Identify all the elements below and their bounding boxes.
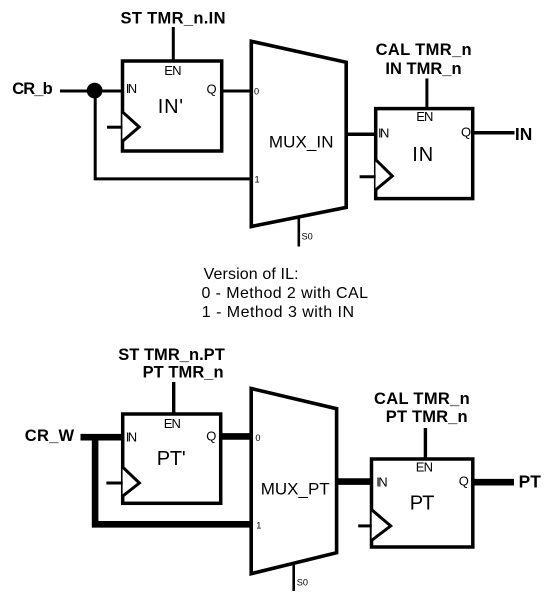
svg-text:IN: IN: [412, 144, 433, 166]
svg-text:Q: Q: [207, 81, 217, 96]
svg-text:0 - Method 2 with CAL: 0 - Method 2 with CAL: [202, 285, 369, 302]
svg-text:1 - Method 3 with IN: 1 - Method 3 with IN: [202, 304, 354, 321]
wire Q of IN to output: [473, 131, 515, 135]
wire Q of IN' to MUX input 0: [221, 90, 251, 93]
wire clock stub of PT': [106, 482, 122, 485]
wire EN stub of IN: [425, 79, 428, 111]
clock triangle of IN: [376, 159, 393, 190]
svg-text:ST TMR_n.PT: ST TMR_n.PT: [118, 346, 225, 364]
svg-text:IN: IN: [376, 475, 387, 490]
svg-text:CR_W: CR_W: [25, 427, 75, 445]
clock triangle of IN': [122, 112, 139, 142]
svg-text:MUX_PT: MUX_PT: [261, 479, 330, 498]
wire MUX_IN output to IN: [346, 133, 376, 137]
svg-text:IN TMR_n: IN TMR_n: [385, 60, 461, 78]
wire S0 stub of MUX_PT: [292, 565, 295, 591]
register PT': [123, 414, 221, 503]
svg-text:S0: S0: [302, 231, 313, 241]
svg-text:IN: IN: [126, 430, 137, 445]
svg-text:IN': IN': [158, 96, 183, 118]
wire feedback to MUX input 1: [95, 91, 252, 179]
svg-text:IN: IN: [378, 126, 389, 141]
mux MUX_PT: [251, 389, 336, 574]
svg-text:1: 1: [256, 521, 261, 531]
svg-text:Q: Q: [459, 474, 469, 489]
wire MUX_PT output to PT (thick): [337, 478, 372, 485]
svg-text:PT TMR_n: PT TMR_n: [143, 364, 224, 382]
svg-text:CAL TMR_n: CAL TMR_n: [374, 390, 470, 408]
wire EN stub of PT': [172, 382, 175, 415]
register IN': [123, 61, 222, 151]
svg-text:Version of IL:: Version of IL:: [204, 266, 299, 283]
clock triangle of PT': [123, 467, 140, 496]
svg-text:1: 1: [255, 175, 260, 185]
wire Q of PT' to MUX_PT input 0 (thick): [221, 433, 252, 440]
wire feedback to MUX_PT input 1 (thick): [95, 437, 252, 524]
svg-text:EN: EN: [164, 416, 181, 431]
wire CR_b input: [60, 90, 122, 93]
wire clock stub of PT: [358, 524, 372, 527]
wire EN stub of PT: [424, 428, 427, 460]
svg-text:IN: IN: [126, 81, 137, 96]
svg-text:PT: PT: [519, 472, 542, 492]
svg-text:0: 0: [255, 433, 260, 443]
node junction dot: [87, 83, 103, 99]
svg-text:EN: EN: [416, 460, 433, 475]
wire CR_W input (thick): [81, 434, 123, 441]
svg-text:S0: S0: [297, 578, 308, 588]
svg-text:0: 0: [254, 87, 259, 97]
svg-text:MUX_IN: MUX_IN: [269, 133, 334, 152]
register PT: [372, 459, 473, 547]
svg-text:PT: PT: [410, 493, 435, 515]
svg-text:PT TMR_n: PT TMR_n: [386, 408, 468, 426]
wire S0 stub of MUX_IN: [297, 217, 300, 247]
wire EN stub of IN': [172, 27, 175, 62]
svg-text:PT': PT': [157, 448, 186, 470]
wire clock stub of IN: [360, 175, 376, 178]
svg-text:EN: EN: [416, 109, 433, 124]
svg-text:Q: Q: [206, 429, 216, 444]
mux MUX_IN: [251, 41, 346, 226]
wire clock stub of IN': [107, 126, 123, 129]
svg-text:CAL TMR_n: CAL TMR_n: [376, 41, 472, 59]
svg-text:ST TMR_n.IN: ST TMR_n.IN: [121, 10, 226, 28]
clock triangle of PT: [372, 510, 391, 541]
svg-text:CR_b: CR_b: [12, 80, 53, 98]
svg-text:EN: EN: [164, 63, 181, 78]
svg-text:Q: Q: [461, 125, 471, 140]
svg-text:IN: IN: [515, 124, 532, 144]
wire Q of PT to output (thick): [473, 479, 515, 486]
register IN: [376, 109, 473, 199]
